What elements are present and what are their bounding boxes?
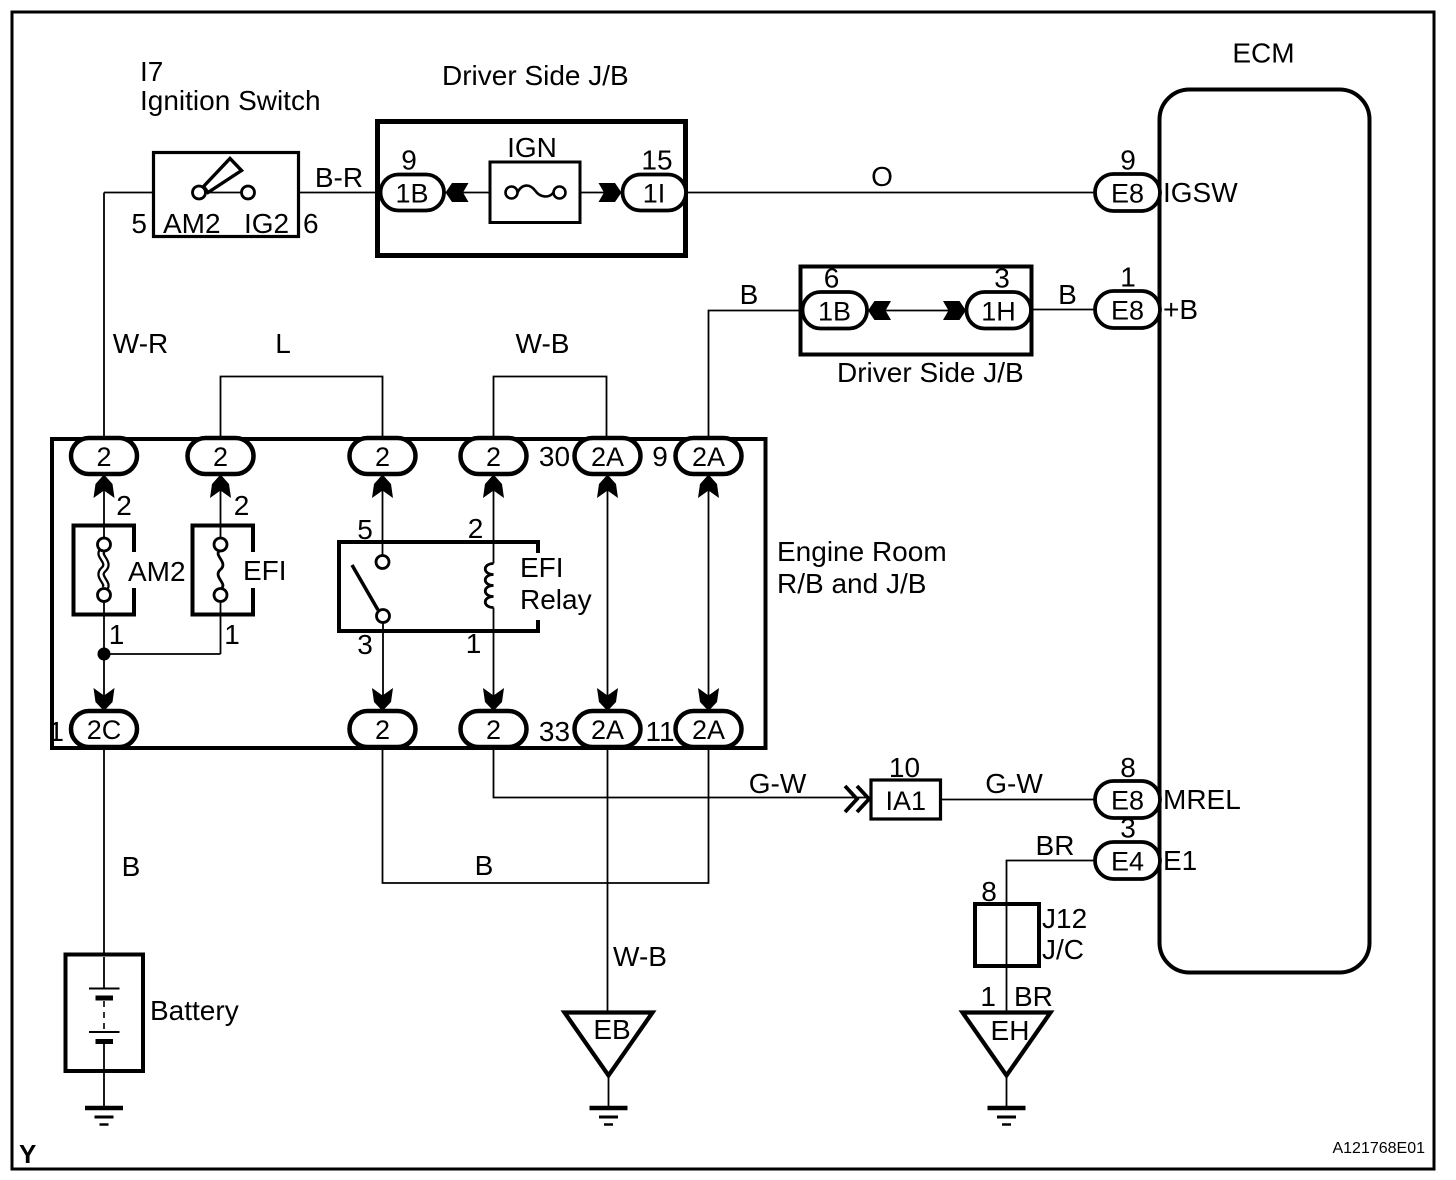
wire BR from E4 to J12 (1007, 861, 1096, 905)
battery box (66, 955, 144, 1072)
relay switch contacts (376, 556, 389, 569)
svg-text:EFI: EFI (520, 552, 564, 583)
oval 2A bottom col6 (676, 711, 742, 747)
svg-text:2A: 2A (692, 442, 725, 472)
ground (EB) (590, 1106, 628, 1111)
svg-text:1B: 1B (818, 297, 851, 327)
svg-text:B: B (122, 851, 141, 882)
svg-text:BR: BR (1014, 981, 1053, 1012)
svg-text:Engine Room: Engine Room (777, 536, 947, 567)
wire column AM2 fuse (103, 474, 105, 711)
svg-text:1I: 1I (643, 179, 666, 209)
svg-text:1: 1 (109, 619, 125, 650)
contact AM2 (193, 186, 206, 199)
svg-text:30: 30 (539, 441, 570, 472)
oval 2 bottom col4 (461, 711, 527, 747)
wire B from 2A up to JB2 1B (709, 311, 803, 439)
svg-text:6: 6 (303, 208, 319, 239)
wire column EFI fuse (220, 474, 222, 654)
wire J12 to EH (1006, 966, 1008, 1013)
arrow into 1I (599, 183, 622, 202)
svg-text:Ignition Switch: Ignition Switch (140, 85, 321, 116)
wire O from 1I to ECM IGSW (686, 192, 1095, 194)
ground triangle EH (963, 1013, 1051, 1076)
oval 2 col2 (188, 438, 254, 474)
fuse AM2 element (101, 550, 106, 589)
svg-text:AM2: AM2 (163, 208, 221, 239)
svg-text:11: 11 (645, 716, 674, 747)
svg-text:BR: BR (1036, 830, 1075, 861)
svg-text:2: 2 (116, 490, 132, 521)
driver side J/B box 1 (378, 122, 686, 256)
svg-text:E4: E4 (1111, 847, 1144, 877)
ignition switch I7 box (154, 153, 299, 237)
oval 2A col6 (676, 438, 742, 474)
svg-text:A121768E01: A121768E01 (1332, 1140, 1425, 1157)
wire G-W from col4 to IA1 (494, 747, 872, 798)
up arrow col6 (698, 475, 719, 499)
wire W-B from col5 to EB (607, 747, 609, 1013)
svg-text:W-B: W-B (613, 941, 667, 972)
fuse AM2 box (74, 526, 135, 615)
svg-text:2: 2 (375, 715, 390, 745)
svg-text:+B: +B (1163, 294, 1198, 325)
battery plate short bottom (96, 1039, 114, 1044)
svg-text:5: 5 (131, 208, 147, 239)
wire EB to ground (608, 1076, 610, 1107)
svg-text:1: 1 (224, 619, 240, 650)
svg-text:2: 2 (213, 442, 228, 472)
svg-text:IA1: IA1 (885, 786, 926, 816)
svg-text:E8: E8 (1111, 786, 1144, 816)
down arrow col5 (597, 688, 618, 711)
wire between 1B and 1H (867, 310, 967, 312)
wire B-R from IG2 to 1B (255, 192, 380, 194)
svg-text:ECM: ECM (1232, 38, 1294, 69)
relay EFI box (339, 542, 538, 631)
svg-text:10: 10 (889, 752, 920, 783)
fuse IGN box (490, 162, 580, 223)
battery wire re-entry (103, 957, 105, 1106)
down arrow col3 (372, 688, 393, 711)
svg-text:2A: 2A (692, 715, 725, 745)
wire between contacts (199, 192, 248, 194)
svg-text:O: O (871, 161, 893, 192)
svg-text:3: 3 (357, 629, 373, 660)
svg-text:R/B and J/B: R/B and J/B (777, 568, 926, 599)
svg-text:Driver Side J/B: Driver Side J/B (442, 60, 629, 91)
wire B from 2C to battery (103, 747, 105, 988)
svg-text:2C: 2C (87, 715, 122, 745)
svg-text:Y: Y (19, 1139, 36, 1169)
down arrow col1 (94, 688, 115, 711)
svg-text:2: 2 (468, 513, 484, 544)
engine room R/B and J/B box (52, 439, 766, 748)
oval 2 col1 (71, 438, 137, 474)
svg-text:E1: E1 (1163, 845, 1197, 876)
svg-text:1B: 1B (395, 179, 428, 209)
wire EH to ground (1006, 1076, 1008, 1107)
svg-text:Battery: Battery (150, 995, 239, 1026)
wire W-B bridge (494, 377, 607, 440)
contact IG2 (242, 186, 255, 199)
fuse EFI element (218, 550, 223, 589)
relay switch blade (352, 565, 378, 610)
chevron arrows G-W (845, 786, 869, 812)
svg-text:E8: E8 (1111, 296, 1144, 326)
battery dashed center (103, 1001, 105, 1030)
svg-text:2A: 2A (591, 715, 624, 745)
ground (EH) (988, 1106, 1026, 1111)
fuse EFI box (193, 526, 254, 615)
fuse IGN element (518, 186, 554, 197)
svg-text:I7: I7 (140, 56, 163, 87)
svg-text:1H: 1H (981, 297, 1016, 327)
junction connector J12 box (975, 904, 1039, 966)
oval 2 col3 (350, 438, 416, 474)
svg-text:1: 1 (48, 716, 64, 747)
svg-text:J/C: J/C (1042, 934, 1084, 965)
svg-text:IGSW: IGSW (1163, 177, 1238, 208)
wire IGN fuse to 1I (560, 192, 626, 194)
svg-text:IGN: IGN (507, 132, 557, 163)
arrow into 1H (943, 301, 966, 320)
svg-text:9: 9 (401, 145, 417, 176)
wire column 2A-30/33 (607, 474, 609, 711)
up arrow col1 (94, 475, 115, 499)
svg-text:B: B (740, 279, 759, 310)
svg-text:1: 1 (1120, 262, 1136, 293)
arrow into 1B (JB2) (868, 301, 891, 320)
driver side J/B box 2 (801, 267, 1032, 355)
svg-text:8: 8 (1120, 752, 1136, 783)
connector oval 1I (623, 175, 687, 211)
svg-text:2: 2 (486, 442, 501, 472)
wire B from 1H to E8 +B (1031, 309, 1095, 311)
svg-text:9: 9 (652, 441, 668, 472)
wire B bridge col3 to col6 (383, 747, 709, 883)
up arrow col3 (372, 475, 393, 499)
connector oval 1B (381, 175, 445, 211)
svg-text:IG2: IG2 (244, 208, 289, 239)
svg-text:9: 9 (1120, 145, 1136, 176)
svg-text:B: B (1058, 279, 1077, 310)
svg-text:6: 6 (824, 263, 840, 294)
svg-text:L: L (275, 328, 291, 359)
connector IA1 box (871, 780, 941, 819)
svg-text:MREL: MREL (1163, 784, 1241, 815)
arrow into 1B (446, 183, 469, 202)
ECM body (1160, 90, 1370, 973)
svg-text:15: 15 (641, 145, 672, 176)
up arrow col5 (597, 475, 618, 499)
ground (battery) (85, 1106, 123, 1111)
svg-text:B-R: B-R (315, 162, 363, 193)
svg-text:2: 2 (234, 490, 250, 521)
battery plate long top (89, 988, 120, 990)
svg-text:3: 3 (994, 263, 1010, 294)
svg-text:2: 2 (96, 442, 111, 472)
wire 1B to IGN fuse (444, 192, 511, 194)
svg-text:W-R: W-R (113, 328, 168, 359)
svg-text:EB: EB (593, 1014, 630, 1045)
ground triangle EB (565, 1013, 653, 1076)
svg-text:3: 3 (1120, 813, 1136, 844)
battery plate short top (96, 996, 114, 1001)
oval 2C (71, 711, 137, 747)
svg-text:Relay: Relay (520, 584, 592, 615)
svg-text:5: 5 (357, 514, 373, 545)
svg-text:2A: 2A (591, 442, 624, 472)
wire L bridge (221, 377, 383, 440)
junction dot (98, 648, 111, 661)
wire W-R vertical from ignition switch AM2 to engine room box (104, 193, 192, 439)
ignition switch lever (204, 159, 242, 193)
oval 2A bottom col5 (575, 711, 641, 747)
oval 2 bottom col3 (350, 711, 416, 747)
up arrow col2 (210, 475, 231, 499)
svg-text:AM2: AM2 (128, 556, 186, 587)
battery plate long bottom (89, 1031, 120, 1033)
up arrow col4 (483, 475, 504, 499)
svg-text:G-W: G-W (985, 768, 1043, 799)
wire junction AM2/EFI (104, 653, 221, 655)
oval 2A col5 (575, 438, 641, 474)
wire column relay switch (382, 474, 385, 711)
oval 2 col4 (461, 438, 527, 474)
svg-text:W-B: W-B (516, 328, 570, 359)
down arrow col6 (698, 688, 719, 711)
wire through J12 (1006, 906, 1008, 964)
svg-text:2: 2 (375, 442, 390, 472)
wire column relay coil (493, 474, 495, 711)
svg-text:Driver Side J/B: Driver Side J/B (837, 357, 1024, 388)
svg-text:1: 1 (980, 981, 996, 1012)
relay coil (485, 564, 493, 608)
down arrow col4 (483, 688, 504, 711)
svg-text:G-W: G-W (749, 768, 807, 799)
svg-text:EH: EH (991, 1015, 1030, 1046)
svg-text:J12: J12 (1042, 903, 1087, 934)
svg-text:EFI: EFI (243, 555, 287, 586)
svg-text:2: 2 (486, 715, 501, 745)
wire column 2A-9/11 (708, 474, 710, 711)
svg-text:E8: E8 (1111, 179, 1144, 209)
svg-text:33: 33 (539, 716, 570, 747)
svg-text:1: 1 (466, 628, 482, 659)
wire G-W from IA1 to E8 MREL (941, 799, 1096, 801)
svg-text:B: B (475, 850, 494, 881)
